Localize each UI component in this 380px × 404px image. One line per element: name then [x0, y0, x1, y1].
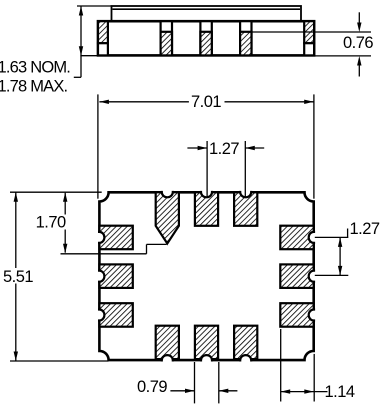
dimension 1.27 (right pad pitch)	[315, 220, 380, 275]
svg-text:1.14: 1.14	[325, 383, 355, 401]
bottom row pad 3	[234, 326, 257, 359]
top row pad 2	[195, 192, 218, 226]
bottom terminal pad 3 (side view)	[240, 21, 251, 55]
svg-text:5.51: 5.51	[3, 268, 33, 286]
top row pad 3	[234, 192, 257, 226]
svg-text:0.79: 0.79	[137, 378, 167, 396]
edge castellation notch, left edge	[97, 232, 104, 243]
edge castellation notch, bottom edge	[201, 355, 212, 362]
dimension 0.76 (pad height, side view)	[252, 12, 373, 76]
edge castellation notch, right edge	[309, 310, 316, 321]
edge castellation notch, left edge	[97, 310, 104, 321]
left column pad 2	[99, 264, 132, 288]
right column pad 1	[280, 226, 313, 250]
svg-text:7.01: 7.01	[191, 93, 221, 111]
right column pad 3	[280, 303, 313, 327]
svg-text:1.78 MAX.: 1.78 MAX.	[0, 78, 68, 96]
bottom terminal pad 2 (side view)	[200, 21, 211, 55]
edge castellation notch, bottom edge	[162, 355, 173, 362]
dimension 0.79 (bottom pad width)	[137, 362, 237, 403]
svg-text:1.27: 1.27	[350, 220, 380, 238]
package body (side view)	[98, 21, 314, 55]
left castellation pad (side view)	[98, 21, 108, 55]
bottom terminal pad 1 (side view)	[161, 21, 172, 55]
left column pad 1	[99, 226, 132, 250]
bottom row pad 2	[195, 326, 218, 359]
right column pad 2	[280, 264, 313, 288]
edge castellation notch, top edge	[162, 190, 173, 197]
edge castellation notch, right edge	[309, 232, 316, 243]
dimension 7.01 (package width)	[98, 93, 314, 199]
edge castellation notch, right edge	[309, 271, 316, 282]
dimension 1.14 (right pad depth)	[281, 329, 355, 402]
package outline (bottom view) with corner castellations	[99, 192, 313, 360]
left column pad 3	[99, 303, 132, 327]
edge castellation notch, top edge	[201, 190, 212, 197]
dimension 5.51 (package height)	[3, 192, 109, 361]
bottom row pad 1	[156, 326, 179, 359]
lid (side view cover)	[112, 6, 302, 21]
svg-text:1.70: 1.70	[36, 213, 66, 231]
edge castellation notch, top edge	[240, 190, 251, 197]
edge castellation notch, left edge	[97, 271, 104, 282]
svg-text:0.76: 0.76	[343, 34, 373, 52]
dimension 1.27 (top pad pitch)	[187, 140, 264, 198]
pin 1 pad (chamfered/pointed)	[156, 192, 179, 243]
edge castellation notch, bottom edge	[240, 355, 251, 362]
svg-text:1.63 NOM.: 1.63 NOM.	[0, 59, 70, 77]
dimension 1.63 NOM / 1.78 MAX (package height)	[0, 6, 112, 96]
dimension 1.70 (pin1 pad depth) with leader	[36, 192, 167, 254]
right castellation pad (side view)	[304, 21, 314, 55]
svg-text:1.27: 1.27	[209, 140, 239, 158]
